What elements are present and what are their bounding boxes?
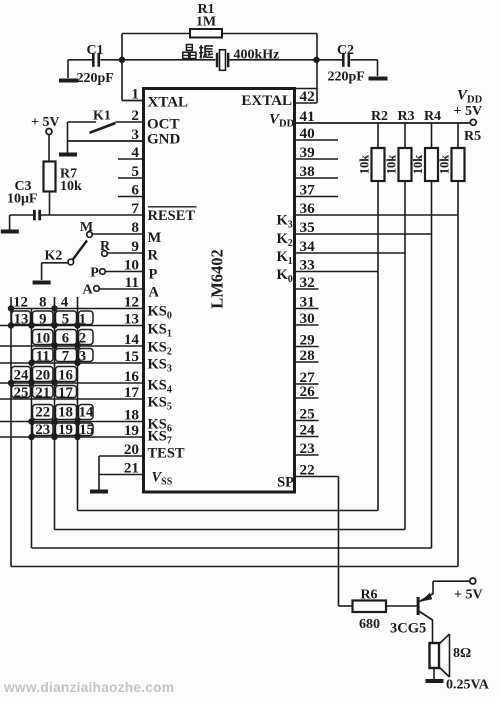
svg-text:10μF: 10μF <box>7 192 38 207</box>
svg-text:8: 8 <box>39 295 46 311</box>
svg-text:20: 20 <box>35 368 50 384</box>
svg-text:10k: 10k <box>411 155 425 175</box>
svg-text:+ 5V: + 5V <box>31 115 60 130</box>
svg-text:SP: SP <box>277 475 294 491</box>
svg-text:10k: 10k <box>358 155 372 175</box>
svg-text:RESET: RESET <box>148 208 196 224</box>
svg-text:www.dianziaihaozhe.com: www.dianziaihaozhe.com <box>3 680 174 695</box>
svg-text:C1: C1 <box>86 43 103 58</box>
svg-text:R: R <box>148 248 159 264</box>
svg-text:680: 680 <box>359 617 380 632</box>
svg-text:OCT: OCT <box>147 117 180 133</box>
svg-text:P: P <box>90 266 99 281</box>
svg-text:+ 5V: + 5V <box>454 588 483 603</box>
svg-text:3: 3 <box>79 349 86 365</box>
svg-text:8Ω: 8Ω <box>453 646 471 661</box>
svg-text:+ 5V: + 5V <box>454 104 483 119</box>
svg-text:19: 19 <box>58 422 73 438</box>
svg-text:R4: R4 <box>424 109 441 124</box>
svg-text:A: A <box>149 285 160 301</box>
svg-text:9: 9 <box>39 312 46 328</box>
svg-text:13: 13 <box>14 312 29 328</box>
svg-text:3CG5: 3CG5 <box>390 621 426 637</box>
svg-text:XTAL: XTAL <box>148 95 189 111</box>
svg-text:K2: K2 <box>45 249 63 264</box>
svg-text:R5: R5 <box>464 129 481 144</box>
svg-text:220pF: 220pF <box>77 71 114 86</box>
svg-text:6: 6 <box>62 331 69 347</box>
svg-text:GND: GND <box>147 132 181 148</box>
svg-text:10k: 10k <box>60 179 82 194</box>
svg-text:TEST: TEST <box>148 446 185 462</box>
svg-text:21: 21 <box>35 385 50 401</box>
svg-text:R2: R2 <box>371 109 388 124</box>
svg-text:10k: 10k <box>385 155 399 175</box>
svg-text:4: 4 <box>61 295 69 311</box>
svg-text:1M: 1M <box>196 15 216 30</box>
svg-text:EXTAL: EXTAL <box>241 93 292 109</box>
svg-text:22: 22 <box>35 405 50 421</box>
svg-text:12: 12 <box>13 295 28 311</box>
svg-text:23: 23 <box>35 422 50 438</box>
svg-text:24: 24 <box>14 368 29 384</box>
svg-text:M: M <box>148 230 162 246</box>
svg-text:0.25VA: 0.25VA <box>446 678 490 693</box>
svg-text:C2: C2 <box>337 43 354 58</box>
svg-text:15: 15 <box>79 422 94 438</box>
svg-text:17: 17 <box>58 385 73 401</box>
svg-text:220pF: 220pF <box>328 70 365 85</box>
svg-text:14: 14 <box>79 405 94 421</box>
svg-text:R6: R6 <box>360 588 377 603</box>
svg-text:11: 11 <box>36 349 50 365</box>
svg-text:R3: R3 <box>397 109 414 124</box>
svg-text:10: 10 <box>35 331 50 347</box>
svg-text:2: 2 <box>79 331 86 347</box>
svg-text:16: 16 <box>58 368 73 384</box>
svg-text:7: 7 <box>62 349 70 365</box>
svg-text:18: 18 <box>58 405 73 421</box>
svg-text:5: 5 <box>62 312 69 328</box>
svg-text:400kHz: 400kHz <box>234 48 280 63</box>
svg-text:1: 1 <box>79 312 86 328</box>
svg-text:P: P <box>149 267 158 283</box>
svg-text:25: 25 <box>14 385 29 401</box>
svg-text:10k: 10k <box>438 155 452 175</box>
svg-text:A: A <box>82 283 93 298</box>
svg-text:LM6402: LM6402 <box>208 249 227 309</box>
